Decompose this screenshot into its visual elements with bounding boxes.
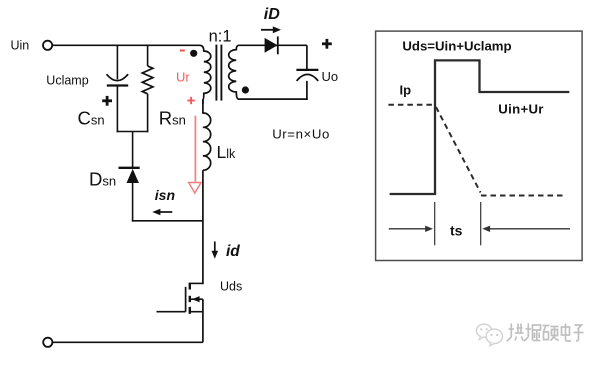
svg-text:id: id xyxy=(226,243,240,260)
arrow iD xyxy=(261,26,281,33)
svg-text:Uo: Uo xyxy=(322,69,339,84)
plus sign Uo xyxy=(322,39,332,49)
capacitor Csn xyxy=(107,74,129,85)
inductor Llk xyxy=(203,100,211,170)
transformer core xyxy=(216,45,221,101)
wire secondary bottom rail xyxy=(262,98,308,100)
arrow Ur red xyxy=(189,116,201,193)
svg-text:Ip: Ip xyxy=(400,83,412,98)
char jue xyxy=(524,324,541,342)
wire Rsn bottom xyxy=(147,94,149,133)
wire junction to Dsn xyxy=(132,132,134,169)
wire top rail xyxy=(52,44,199,46)
waveform dashed low level xyxy=(481,195,566,197)
wire gate xyxy=(157,311,186,313)
char ying xyxy=(543,326,559,341)
arrow ts left xyxy=(389,226,433,232)
arrow isn xyxy=(152,209,172,216)
wire Csn bottom xyxy=(116,86,118,133)
arrow ts right xyxy=(482,226,570,232)
wire Dsn anode down xyxy=(132,183,134,222)
svg-text:Ur: Ur xyxy=(176,69,190,84)
wire Rsn top xyxy=(147,45,149,66)
svg-text:Uin: Uin xyxy=(11,39,30,53)
capacitor Uo xyxy=(296,70,318,81)
diode D output xyxy=(262,36,307,54)
wire secondary right down xyxy=(306,45,308,70)
svg-text:isn: isn xyxy=(155,187,175,203)
svg-text:Uds=Uin+Uclamp: Uds=Uin+Uclamp xyxy=(402,38,511,53)
svg-text:Ur=n×Uo: Ur=n×Uo xyxy=(272,127,330,142)
svg-text:Uclamp: Uclamp xyxy=(46,73,88,87)
marker line ts left xyxy=(434,202,436,245)
plus sign Csn xyxy=(102,96,112,106)
svg-text:n:1: n:1 xyxy=(209,27,232,45)
arrow id xyxy=(212,242,219,259)
watermark icon xyxy=(476,324,502,346)
label plus red xyxy=(187,97,194,104)
char gong xyxy=(507,324,524,342)
polarity dot primary xyxy=(190,50,197,57)
wire Csn top xyxy=(116,45,118,79)
svg-text:ts: ts xyxy=(450,222,463,238)
polarity dot secondary xyxy=(242,86,249,93)
diode Dsn xyxy=(119,168,140,183)
waveform Ip dashed level xyxy=(388,104,433,106)
marker line ts right xyxy=(480,202,482,245)
svg-text:Uin+Ur: Uin+Ur xyxy=(498,102,543,117)
terminal bottom xyxy=(43,338,52,347)
wire isn horizontal xyxy=(132,220,203,222)
char zi xyxy=(574,325,584,341)
waveform Uds solid trace xyxy=(390,60,570,194)
mosfet body arrow xyxy=(192,296,200,302)
transformer secondary winding xyxy=(229,45,262,99)
waveform dashed ramp xyxy=(436,107,481,193)
wire Uo bottom xyxy=(306,81,308,100)
char dian xyxy=(562,324,572,342)
wire bottom rail xyxy=(53,341,203,343)
wire snubber junction xyxy=(117,131,149,133)
transformer primary winding xyxy=(200,45,211,104)
mosfet Q1 xyxy=(186,283,203,343)
label minus red xyxy=(180,49,185,51)
waveform panel frame xyxy=(376,31,582,260)
svg-text:Uds: Uds xyxy=(220,280,242,294)
wire Llk to drain xyxy=(202,170,204,284)
terminal Uin xyxy=(43,41,52,50)
resistor Rsn xyxy=(142,66,153,94)
watermark text xyxy=(507,324,584,342)
svg-text:iD: iD xyxy=(264,6,280,23)
